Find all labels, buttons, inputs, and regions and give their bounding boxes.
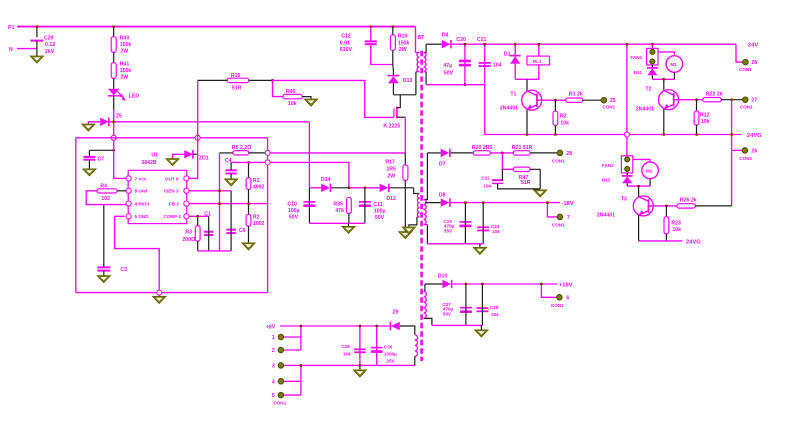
- wire 18Vb return row: [432, 324, 483, 326]
- wire sense divider column: [219, 153, 221, 251]
- relay RL1: [527, 56, 550, 65]
- svg-text:10k: 10k: [672, 227, 681, 233]
- junction dot C11 tap: [364, 186, 367, 189]
- wire FB loop left edge: [75, 138, 77, 293]
- capacitor C26 1000u 25V: [371, 344, 397, 363]
- wire D1 stub: [514, 44, 516, 56]
- svg-text:Z5: Z5: [116, 113, 122, 119]
- wire T3 emitter rail: [639, 240, 683, 242]
- wire R2 top stub: [554, 100, 556, 111]
- svg-text:CON1: CON1: [552, 222, 565, 227]
- junction dot FAN1 top: [651, 43, 654, 46]
- svg-text:51R: 51R: [232, 85, 242, 91]
- transformer core: [420, 51, 423, 361]
- wire 18V return row: [427, 243, 483, 245]
- wire C29 to ground: [36, 41, 38, 56]
- ground below 18V row: [473, 247, 487, 254]
- wire C22 bottom link: [498, 183, 541, 189]
- svg-text:2W: 2W: [399, 47, 407, 53]
- svg-text:T2: T2: [645, 86, 651, 92]
- wire ISEN row: [189, 190, 231, 192]
- wire fan2 motor top link: [633, 159, 650, 162]
- wire C27 column: [465, 284, 467, 325]
- ground below R2: [242, 243, 256, 250]
- svg-text:24VG: 24VG: [686, 239, 701, 245]
- resistor R22 2k: [703, 91, 723, 102]
- junction dot FB/219: [218, 202, 221, 205]
- pin 7 Vcc: [126, 176, 147, 182]
- wire T1 base row: [537, 99, 566, 101]
- svg-text:ZD1: ZD1: [199, 156, 209, 162]
- wire fan1 bottom row: [652, 78, 674, 80]
- wire Z5 net drop to D14 node: [308, 122, 310, 188]
- svg-text:R2: R2: [560, 114, 567, 120]
- svg-text:Z9: Z9: [392, 309, 398, 315]
- transformer aux winding: [417, 194, 420, 218]
- wire C7 column: [88, 150, 90, 156]
- resistor R46 10k: [283, 89, 302, 107]
- wire T3 base row: [649, 205, 677, 207]
- transistor T2 2N4401: [636, 86, 679, 112]
- wire C28 column: [481, 284, 483, 325]
- svg-text:D14: D14: [321, 177, 331, 183]
- LED indicator: [108, 89, 140, 101]
- svg-text:104: 104: [483, 183, 491, 188]
- svg-text:T1: T1: [510, 91, 516, 97]
- wire R26 right to column: [695, 205, 731, 207]
- wire 24VG rail: [485, 134, 742, 136]
- hop ring startup column over FB row: [111, 135, 116, 140]
- wire C25 column: [359, 326, 361, 365]
- svg-text:D7: D7: [439, 161, 446, 167]
- svg-text:28: 28: [751, 60, 757, 66]
- wire RL1 bottom stub: [538, 65, 540, 79]
- svg-text:K.2225: K.2225: [383, 123, 400, 129]
- wire aux winding bottom elbow: [409, 217, 417, 227]
- capacitor C21 104: [477, 37, 502, 68]
- svg-text:50V: 50V: [289, 214, 299, 220]
- resistor R26 2k: [677, 197, 697, 208]
- diode D13: [387, 76, 412, 84]
- motor M1: [666, 56, 683, 73]
- capacitor C4: [225, 158, 237, 174]
- capacitor C28 104: [476, 305, 499, 317]
- svg-text:D4: D4: [442, 32, 449, 38]
- wire R5 left elbow down: [220, 152, 233, 154]
- capacitor C29: [30, 36, 55, 55]
- resistor R41 150k 2W: [111, 61, 131, 80]
- ground below aux bus: [342, 226, 356, 233]
- wire aux8 winding bottom elbow: [414, 356, 416, 365]
- svg-text:C1: C1: [204, 211, 211, 217]
- svg-text:FAN1: FAN1: [630, 55, 642, 60]
- wire R21 to pin28: [530, 152, 557, 154]
- ground below C25: [353, 370, 367, 377]
- svg-text:1: 1: [272, 335, 275, 341]
- wire T3 collector: [638, 186, 640, 197]
- capacitor C10 100u 50V: [287, 201, 315, 220]
- capacitor C20 47u 50V: [443, 37, 471, 76]
- diode D8: [439, 192, 450, 206]
- junction dot fan1 bottom: [662, 78, 665, 81]
- junction dot R2 tap: [554, 99, 557, 102]
- wire RL1 top stub: [538, 44, 540, 56]
- wire C12 bottom elbow: [371, 44, 393, 64]
- wire gate run: [273, 80, 394, 117]
- wire sense row to mosfet source: [270, 152, 405, 154]
- wire pin7 elbow: [547, 203, 557, 217]
- resistor R2 10k: [553, 111, 569, 126]
- wire OUT pin column: [189, 138, 198, 178]
- svg-text:R12: R12: [700, 112, 710, 118]
- svg-text:C25: C25: [341, 344, 350, 349]
- svg-text:2: 2: [272, 348, 275, 354]
- svg-text:150k: 150k: [120, 42, 132, 48]
- svg-text:R3: R3: [185, 229, 192, 235]
- zener D12 fan: [602, 176, 633, 183]
- wire aux gnd bus: [309, 222, 365, 224]
- svg-text:8 Uref: 8 Uref: [135, 189, 148, 194]
- wire R1 top stub: [248, 162, 250, 177]
- wire R46 right to ground: [302, 97, 311, 99]
- connector pin 6: [551, 295, 570, 308]
- wire D10 feed: [425, 283, 443, 285]
- junction dot C25 top: [359, 325, 362, 328]
- svg-text:R22 2k: R22 2k: [706, 91, 723, 97]
- junction dot pin6 elbow: [540, 283, 543, 286]
- hop ring FB vertical over sense row: [265, 150, 270, 155]
- wire D4 feed: [426, 43, 442, 45]
- svg-text:R46: R46: [286, 89, 296, 95]
- wire R19 bottom stub: [392, 50, 395, 75]
- junction dot C24 top: [482, 201, 485, 204]
- wire D12 to winding: [390, 187, 414, 189]
- resistor R4 102: [97, 184, 117, 202]
- wire P1 mains rail: [17, 26, 416, 28]
- wire secondary18 top elbow: [424, 153, 428, 200]
- transformer secondary 24V winding: [424, 53, 427, 72]
- svg-text:R35: R35: [333, 201, 343, 207]
- junction dot R12 rail: [695, 133, 698, 136]
- wire T2 base row: [674, 99, 703, 101]
- svg-text:0.01: 0.01: [340, 40, 350, 46]
- svg-text:R5 2.2Ω: R5 2.2Ω: [232, 145, 251, 151]
- wire R46 drop: [273, 80, 283, 96]
- svg-text:C21: C21: [477, 37, 487, 43]
- capacitor C25 104: [341, 344, 365, 356]
- svg-text:1R5: 1R5: [386, 166, 396, 172]
- ground left of ZD1: [166, 159, 180, 166]
- wire R20 to junction: [490, 152, 513, 154]
- resistor R23 10k: [664, 217, 681, 234]
- wire fan2 bottom row: [627, 185, 650, 187]
- svg-text:2kV: 2kV: [45, 49, 55, 55]
- svg-text:D8: D8: [439, 192, 446, 198]
- wire FB pin row: [189, 203, 268, 205]
- junction dot pin7 elbow: [546, 201, 549, 204]
- svg-text:C26: C26: [384, 344, 393, 349]
- wire minus18 row: [451, 202, 560, 204]
- wire D1 RL1 join row: [515, 78, 539, 80]
- wire FAN2 box to D12: [626, 173, 628, 176]
- svg-text:D10: D10: [438, 274, 448, 280]
- resistor R2 1002: [246, 214, 264, 227]
- junction dot pins12: [300, 325, 303, 328]
- svg-text:D1: D1: [504, 51, 511, 57]
- svg-text:P1: P1: [8, 25, 14, 31]
- connector pin 1: [272, 334, 284, 341]
- svg-text:2W: 2W: [120, 49, 128, 55]
- wire FB row y=137.8: [76, 137, 268, 139]
- svg-text:C3: C3: [120, 267, 127, 273]
- svg-text:2W: 2W: [120, 75, 128, 81]
- junction dot pins345: [300, 364, 303, 367]
- svg-text:C22: C22: [481, 175, 490, 180]
- wire R16 left elbow: [198, 79, 228, 81]
- wire FAN1 box to D11: [651, 65, 653, 68]
- transformer secondary 18Vb winding: [424, 291, 427, 318]
- wire C26 column: [376, 326, 378, 365]
- svg-text:+8V: +8V: [266, 324, 276, 330]
- junction dot C20 top: [464, 43, 467, 46]
- wire C3 to ground: [103, 271, 105, 276]
- wire startup column top: [113, 27, 115, 37]
- transistor Q1 mosfet K2225: [383, 95, 405, 130]
- wire pin6 elbow: [541, 284, 556, 297]
- svg-text:LED: LED: [129, 93, 140, 99]
- wire between R40 R41: [113, 52, 115, 62]
- wire N stub: [17, 48, 37, 50]
- junction dot fan column top: [626, 43, 629, 46]
- svg-text:C6: C6: [239, 228, 246, 234]
- svg-text:50V: 50V: [443, 311, 452, 316]
- capacitor C12 0.01 630V: [340, 34, 377, 54]
- svg-text:2N4401: 2N4401: [500, 105, 518, 111]
- svg-text:CON1: CON1: [740, 105, 753, 110]
- svg-text:R23: R23: [671, 220, 681, 226]
- ground below C7: [83, 169, 97, 176]
- hop ring GND column over FB loop bottom: [157, 290, 162, 295]
- svg-text:R26 2k: R26 2k: [680, 197, 697, 203]
- wire OUT column upper to R16 row: [197, 80, 199, 137]
- hop ring OUT column over FB row: [195, 135, 200, 140]
- svg-text:OUT 6: OUT 6: [165, 176, 179, 181]
- svg-text:50V: 50V: [444, 70, 454, 76]
- svg-text:U1: U1: [151, 153, 158, 159]
- svg-text:150k: 150k: [120, 68, 132, 74]
- diode D10: [438, 274, 452, 289]
- wire R22 right to pin27: [722, 99, 743, 101]
- connector pin 7: [552, 214, 570, 227]
- resistor R17 1R5 2W: [385, 159, 408, 180]
- junction dot RL1 top: [537, 43, 540, 46]
- junction dot C29/P1: [36, 25, 39, 28]
- wire secondary18 bottom elbow: [426, 225, 428, 244]
- svg-text:25V: 25V: [386, 358, 395, 363]
- pin FB 2: [169, 201, 189, 207]
- wire C7 tap row: [89, 149, 113, 151]
- svg-text:M2: M2: [646, 169, 653, 174]
- wire secondary24 top elbow: [424, 44, 427, 52]
- capacitor C1: [204, 211, 214, 235]
- diode D4: [442, 32, 451, 48]
- junction dot D1 top: [514, 43, 517, 46]
- resistor R16 51R gate drive: [227, 73, 249, 92]
- svg-text:27: 27: [751, 97, 757, 103]
- wire T1 emitter: [526, 110, 528, 135]
- resistor R1 2k: [566, 91, 583, 102]
- svg-text:D13: D13: [403, 78, 413, 84]
- wire fan supply column: [626, 44, 628, 156]
- ground below R17: [399, 232, 413, 239]
- zener D1: [504, 51, 521, 63]
- svg-text:25: 25: [610, 98, 616, 104]
- resistor R1 4992: [246, 178, 264, 191]
- wire C4 stub: [230, 162, 232, 170]
- svg-text:104: 104: [492, 229, 500, 234]
- wire pin2 stub: [284, 349, 301, 351]
- wire R2 bottom stub: [554, 125, 556, 134]
- svg-text:+18V: +18V: [559, 283, 573, 289]
- wire R12 top stub: [696, 100, 698, 111]
- pin 8 Uref: [126, 188, 148, 194]
- svg-text:10k: 10k: [288, 101, 297, 107]
- svg-text:102: 102: [101, 196, 110, 202]
- ground below FB loop: [152, 296, 166, 303]
- svg-text:7 Vcc: 7 Vcc: [135, 176, 147, 181]
- wire R41 to LED: [113, 78, 115, 89]
- wire R17 bottom to ground: [404, 180, 406, 231]
- wire right 24VG column: [731, 100, 733, 206]
- junction dot R46 tap: [271, 79, 274, 82]
- wire secondary18b top elbow: [424, 284, 425, 291]
- wire secondary18b bottom elbow: [424, 318, 432, 325]
- wire FAN1 stub: [651, 44, 653, 48]
- junction dot C21 top: [483, 43, 486, 46]
- wire gnd row pin3: [284, 364, 415, 366]
- wire D11 bottom: [651, 75, 653, 79]
- wire pin26 stub: [732, 149, 742, 151]
- wire T2 collector: [663, 79, 665, 90]
- wire pin4 stub: [284, 380, 301, 382]
- junction dot C7 tap: [112, 149, 115, 152]
- junction dot R3 tap: [196, 215, 199, 218]
- junction dot C27 top: [465, 283, 468, 286]
- svg-text:50V: 50V: [375, 215, 385, 221]
- svg-text:630V: 630V: [340, 47, 353, 53]
- capacitor C22 104: [481, 175, 503, 188]
- wire 18Vb gnd stem: [480, 325, 482, 330]
- wire C12 column: [370, 27, 372, 41]
- junction dot C20 bottom: [464, 83, 467, 86]
- connector pin 5: [272, 392, 284, 399]
- wire D14 to mid node: [331, 187, 349, 189]
- diode D7: [439, 149, 450, 168]
- svg-text:COMP 1: COMP 1: [163, 214, 181, 219]
- wire primary bottom to drain: [415, 72, 417, 95]
- wire return descent to 24VG: [484, 85, 486, 135]
- wire C4 row: [231, 161, 265, 163]
- wire pin1 stub: [284, 336, 301, 338]
- wire D8 feed: [425, 202, 441, 204]
- ground below C4: [224, 179, 238, 186]
- wire R1 bottom to FB row: [248, 189, 250, 214]
- svg-text:N: N: [9, 47, 13, 53]
- wire Vcc column to pin7: [114, 138, 127, 179]
- wire ZD1 cathode to OUT column: [193, 153, 198, 155]
- wire D7 feed: [427, 152, 440, 154]
- wire mid node run: [349, 187, 380, 189]
- svg-text:C29: C29: [44, 36, 54, 42]
- capacitor C27 470u 50V: [442, 302, 472, 316]
- junction dot T1 emitter rail: [526, 133, 529, 136]
- wire C10 column: [308, 188, 310, 224]
- svg-text:150k: 150k: [398, 40, 410, 46]
- connector pin 26: [739, 148, 757, 161]
- svg-text:24VG: 24VG: [747, 133, 762, 139]
- connector pin 3: [272, 363, 284, 370]
- wire R23 bottom stub: [665, 234, 667, 241]
- wire ZD1 row to ground: [173, 154, 185, 158]
- svg-text:C7: C7: [97, 156, 104, 162]
- wire Z9 to winding: [399, 325, 401, 327]
- connector pin 4: [272, 379, 284, 386]
- junction dot ISEN/219: [218, 189, 221, 192]
- svg-text:4 Rt/Ct: 4 Rt/Ct: [135, 202, 150, 207]
- wire T2 emitter: [663, 109, 665, 134]
- svg-text:M1: M1: [670, 62, 677, 67]
- svg-text:47µ: 47µ: [443, 63, 452, 69]
- junction dot R19 tap on P1: [391, 25, 394, 28]
- wire C11 column: [364, 188, 366, 224]
- capacitor C23 470u 35V: [443, 219, 471, 233]
- svg-text:R19: R19: [398, 34, 408, 40]
- transistor T1 2N4401: [500, 90, 542, 111]
- wire C25 gnd stem: [359, 365, 361, 370]
- svg-text:D11: D11: [634, 70, 643, 75]
- svg-text:104: 104: [493, 63, 502, 69]
- junction dot C23 top: [464, 201, 467, 204]
- wire Z5 row to Vcc rail: [109, 121, 310, 123]
- junction dot R23 tap: [665, 205, 668, 208]
- svg-text:26: 26: [751, 148, 757, 154]
- junction dot T2 emitter rail: [662, 133, 665, 136]
- wire pins12 column: [300, 326, 302, 350]
- wire C24 column: [482, 203, 484, 244]
- wire COMP row: [189, 215, 209, 217]
- transistor T3 2N4401: [597, 196, 653, 219]
- resistor R40 150k 2W: [111, 35, 131, 54]
- wire drain row: [393, 94, 416, 96]
- wire pins345 column: [300, 365, 302, 395]
- svg-text:104: 104: [343, 351, 351, 356]
- svg-text:R17: R17: [385, 159, 395, 165]
- wire mosfet source down: [404, 117, 406, 153]
- svg-text:24V: 24V: [748, 43, 758, 49]
- resistor R12 10k: [694, 111, 710, 125]
- svg-text:51R: 51R: [521, 180, 531, 186]
- resistor R35 47k: [333, 197, 351, 214]
- wire 18V gnd stem: [479, 244, 481, 248]
- ground below 18Vb row: [475, 330, 489, 337]
- svg-text:CON1: CON1: [551, 303, 564, 308]
- wire aux8 winding top elbow: [400, 326, 415, 335]
- svg-text:CON1: CON1: [602, 105, 615, 110]
- wire C7 to ground: [88, 160, 90, 169]
- wire C21 column: [484, 44, 486, 84]
- pin 4 Rt/Ct: [126, 201, 150, 207]
- wire R3 top stub: [197, 216, 199, 225]
